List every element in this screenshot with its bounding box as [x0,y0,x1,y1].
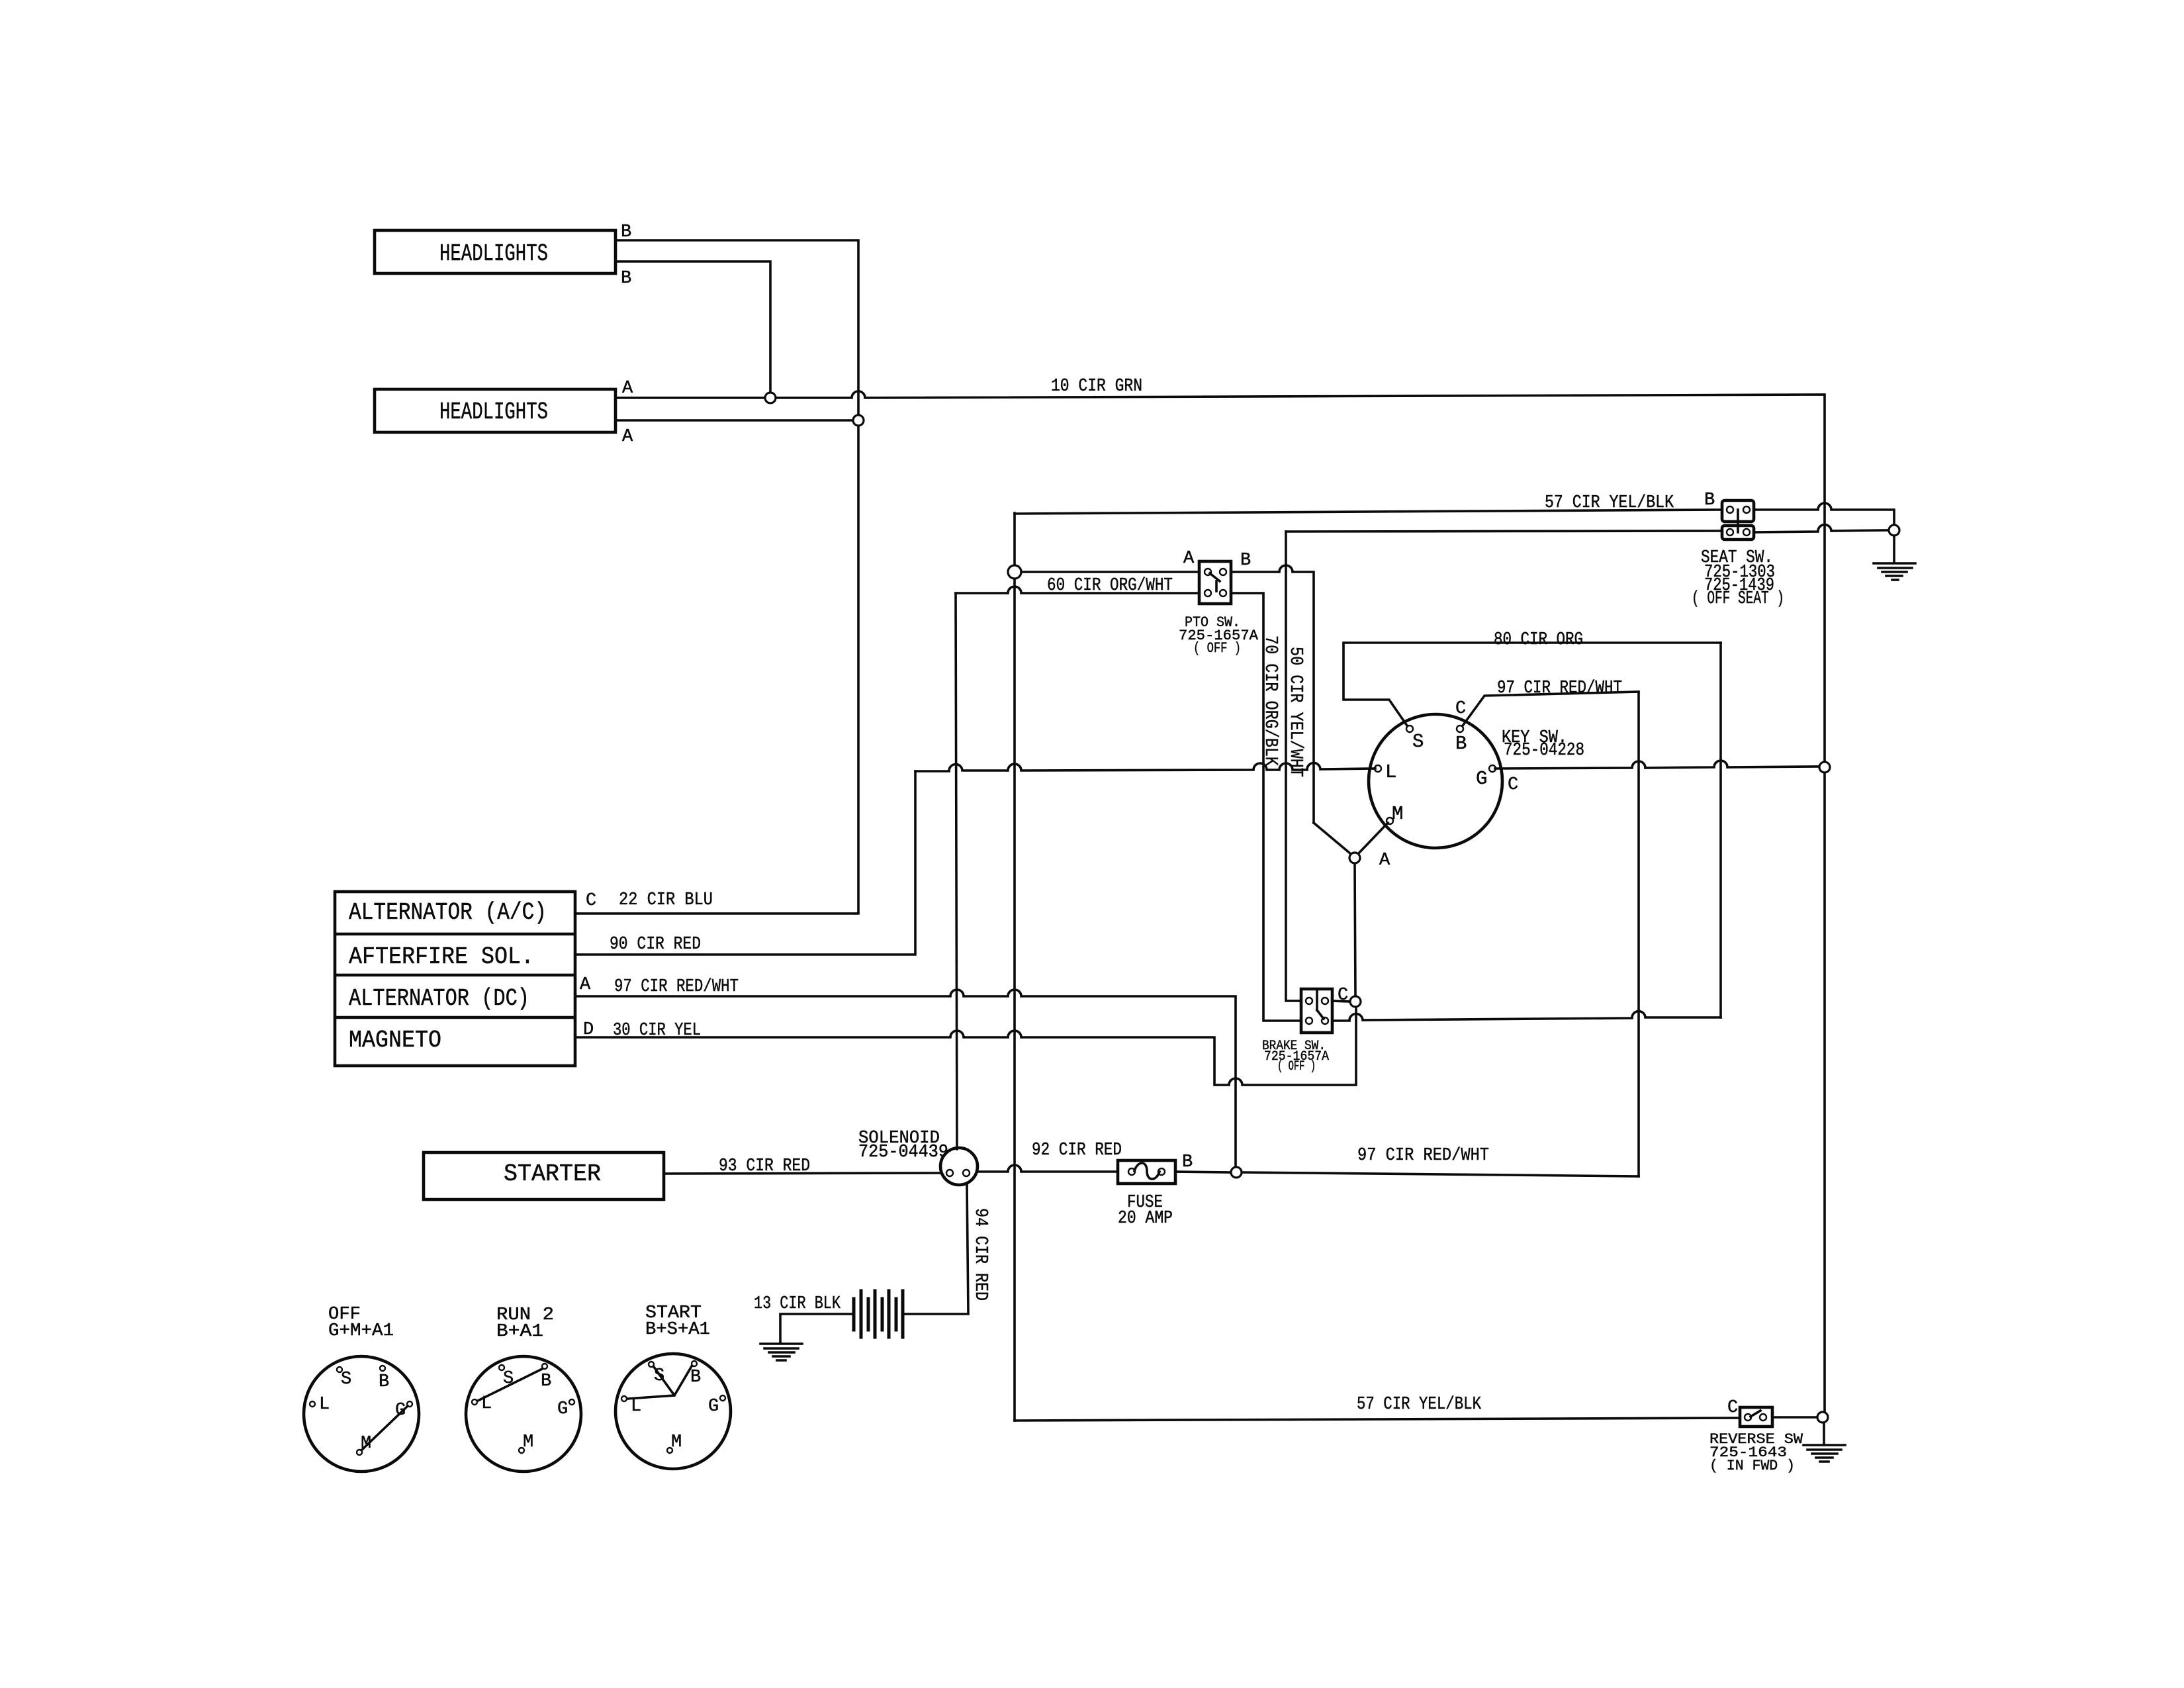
svg-text:92 CIR RED: 92 CIR RED [1032,1141,1122,1160]
svg-text:ALTERNATOR (DC): ALTERNATOR (DC) [349,985,529,1012]
wire brake bottom-right pin output with hops, to 80 CIR ORG vertical [1332,1011,1721,1021]
svg-text:B: B [541,1372,551,1391]
PTO switch PTO SW. 725-1657A (OFF) [1179,561,1259,657]
svg-text:HEADLIGHTS: HEADLIGHTS [439,399,548,426]
svg-text:13 CIR BLK: 13 CIR BLK [754,1294,841,1314]
wire headlight2-A bottom to junction [615,419,852,422]
svg-text:B: B [690,1368,701,1387]
svg-text:B: B [621,269,631,289]
svg-text:A: A [580,975,591,995]
svg-text:725-04228: 725-04228 [1504,741,1584,761]
svg-text:A: A [1183,549,1195,569]
starter box [424,1152,664,1199]
headlights lamp 2 box [375,389,615,432]
wire main ground bus vertical (right side, below G junction) [1823,773,1826,1411]
wire 90 CIR RED from afterfire solenoid up to L wire [575,771,915,955]
svg-text:725-04439: 725-04439 [858,1143,948,1162]
node fuse output junction with 97 CIR RED/WHT [1231,1167,1242,1178]
seat switch SEAT SW. 725-1303 725-1439 [1692,500,1784,609]
svg-text:90 CIR RED: 90 CIR RED [610,935,701,955]
svg-text:G: G [1476,768,1487,790]
node junction of B2 wire on 10 CIR GRN wire [765,393,776,403]
svg-text:( OFF SEAT ): ( OFF SEAT ) [1692,589,1784,609]
svg-text:A: A [1379,851,1390,870]
wire 57 CIR YEL/BLK top run from 57 bus to seat switch [1015,510,1722,514]
wire key-L run from 90 CIR RED corner to key L terminal with hops [915,763,1375,771]
reverse switch REVERSE SW 725-1643 (IN FWD) [1709,1407,1803,1474]
svg-text:M: M [523,1432,533,1452]
svg-text:C: C [586,891,596,911]
svg-text:A: A [622,379,633,399]
svg-text:M: M [671,1432,682,1452]
ground (battery negative) [760,1344,802,1360]
wire junction down to chassis ground [1823,1423,1825,1444]
svg-text:97 CIR RED/WHT: 97 CIR RED/WHT [1497,679,1622,698]
svg-text:( IN FWD ): ( IN FWD ) [1709,1458,1795,1474]
svg-text:( OFF ): ( OFF ) [1277,1059,1316,1074]
node key M junction [1349,853,1360,863]
svg-text:B: B [1704,491,1715,510]
svg-text:ALTERNATOR (A/C): ALTERNATOR (A/C) [349,899,547,926]
wire seat switch top output with hop over ground bus, down to junction [1754,503,1894,524]
wire 60 CIR ORG/WHT junction to PTO switch pin A [1021,571,1199,573]
brake switch BRAKE SW. 725-1657A (OFF) [1262,989,1332,1074]
wire PTO bottom-right pin to 70 CIR ORG/BLK vertical [1231,593,1301,1021]
svg-text:A: A [622,427,633,447]
svg-text:22 CIR BLU: 22 CIR BLU [619,890,713,910]
svg-text:AFTERFIRE SOL.: AFTERFIRE SOL. [349,943,534,970]
wire 30 CIR YEL from magneto with hops, loop to brake junction [575,1008,1356,1085]
wire fuse output to junction [1175,1172,1230,1172]
wire 93 CIR RED starter to solenoid [664,1173,940,1174]
wire headlight1-B bottom to vertical down to junction on 10 CIR GRN [615,261,770,395]
svg-text:97 CIR RED/WHT: 97 CIR RED/WHT [1357,1146,1489,1166]
wire headlight2-A top / 10 CIR GRN run with hop over B1 vertical [615,391,1825,761]
svg-text:L: L [1385,761,1396,783]
node junction key switch G wire to ground bus [1819,762,1830,773]
wire headlight1-B top across and down to A2 junction [615,240,858,414]
wire 22 CIR BLU vertical down to alternator A/C [575,426,858,914]
svg-text:97 CIR RED/WHT: 97 CIR RED/WHT [614,977,739,997]
alternator / engine connector block [335,892,575,1066]
svg-text:C: C [1727,1398,1738,1418]
wire diagonal from 97 branch vertical to key M junction [1314,823,1351,854]
svg-text:B+S+A1: B+S+A1 [645,1320,710,1340]
wire PTO pin B right with hop over 50 vertical, corner down as 97 branch vertical [1231,565,1314,823]
key position diagram RUN 2 (B+A1) [466,1305,581,1472]
svg-text:G+M+A1: G+M+A1 [328,1321,394,1341]
svg-text:B: B [1240,551,1251,571]
svg-text:STARTER: STARTER [504,1160,601,1188]
wire key M terminal diagonal to junction [1359,823,1388,853]
wire 57 CIR YEL/BLK bottom run to reverse switch [1015,1418,1740,1421]
svg-text:80 CIR ORG: 80 CIR ORG [1494,630,1583,650]
ground (seat switch) [1874,563,1915,580]
wire brake top-right pin to junction [1332,1001,1349,1002]
wire 97 CIR RED/WHT from alternator DC with hops, down to fuse junction [575,990,1236,1166]
node junction 60 CIR ORG/WHT tap on 57 bus [1008,565,1021,579]
wire key G terminal to ground bus junction with hops over 97 and 80 verticals [1495,761,1819,769]
svg-text:20 AMP: 20 AMP [1118,1209,1173,1229]
node junction seat switch outputs [1889,525,1899,536]
battery [854,1291,903,1337]
wire junction down to chassis ground [1893,536,1895,562]
wire reverse switch output to ground bus junction [1772,1416,1817,1419]
wire 50 CIR YEL/WHT top corner to seat switch bottom wire [1286,531,1722,532]
svg-text:50 CIR YEL/WHT: 50 CIR YEL/WHT [1285,647,1305,777]
wire vertical from PTO-A corner down into solenoid top [956,593,957,1149]
wire from M junction down to brake junction [1355,864,1355,996]
svg-text:M: M [1392,803,1403,825]
svg-text:MAGNETO: MAGNETO [349,1027,441,1054]
svg-text:70 CIR ORG/BLK: 70 CIR ORG/BLK [1260,635,1280,767]
svg-text:G: G [708,1397,719,1417]
svg-text:L: L [631,1397,641,1417]
svg-text:S: S [1412,731,1424,753]
wire seat switch bottom output with hop over ground bus [1754,525,1888,532]
key position diagram OFF (G+M+A1) [304,1305,419,1472]
node brake switch junction (M wire / 30 CIR YEL) [1350,996,1361,1007]
svg-text:94 CIR RED: 94 CIR RED [970,1208,990,1301]
wire 57 bus vertical from top 57 wire down to bottom 57 wire [1013,513,1016,1421]
wire 97 CIR RED/WHT from key B terminal up and right [1461,692,1639,727]
wire 97 CIR RED/WHT vertical down to fuse output run [1637,692,1640,1176]
key position diagram START (B+S+A1) [615,1303,731,1469]
svg-text:( OFF ): ( OFF ) [1193,640,1241,657]
svg-text:S: S [341,1370,351,1389]
svg-text:57 CIR YEL/BLK: 57 CIR YEL/BLK [1545,493,1674,513]
fuse FUSE 20 AMP [1118,1160,1175,1229]
node junction of A2 wire with 22 CIR BLU vertical [853,415,864,426]
svg-text:10 CIR GRN: 10 CIR GRN [1051,377,1142,397]
svg-text:G: G [557,1399,568,1419]
wire 13 CIR BLK battery to ground [780,1314,854,1342]
headlights lamp 1 box [375,230,615,273]
ground (reverse switch) [1803,1445,1845,1462]
wire 94 CIR RED solenoid down to battery [903,1185,968,1314]
key switch KEY SW. 725-04228 [1369,714,1502,848]
wire 50 CIR YEL/WHT vertical from seat-switch lower run down to brake switch [1286,532,1301,1001]
wire 80 CIR ORG loop from key S terminal to brake switch column [1343,643,1721,727]
svg-text:C: C [1455,699,1466,719]
svg-text:B: B [379,1372,389,1392]
svg-text:B: B [1182,1152,1193,1172]
svg-text:L: L [319,1395,330,1415]
svg-text:57 CIR YEL/BLK: 57 CIR YEL/BLK [1357,1395,1482,1415]
svg-text:B: B [1455,733,1467,755]
solenoid [940,1148,978,1185]
wire from corner down-left of PTO to PTO bottom-left pin with hop over 57 bus [956,586,1199,593]
svg-text:HEADLIGHTS: HEADLIGHTS [439,240,548,267]
wire 92 CIR RED solenoid to fuse with hop over 57 bus [978,1165,1118,1172]
svg-text:C: C [1508,775,1518,795]
svg-text:B+A1: B+A1 [496,1322,543,1342]
wire 80 CIR ORG vertical down to brake switch output run [1719,643,1722,1017]
node reverse switch / ground bus junction [1817,1412,1828,1423]
wire 97 CIR RED/WHT bottom run junction to right vertical [1242,1172,1639,1176]
